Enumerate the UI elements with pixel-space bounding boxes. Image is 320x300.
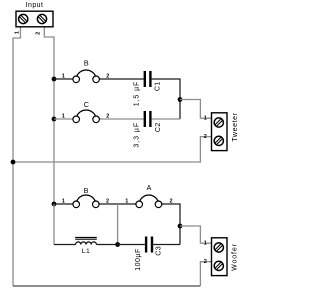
capacitor C3	[145, 237, 153, 253]
wire input pin2 to positive rail	[44, 27, 54, 204]
wire L1 to C3	[96, 244, 144, 246]
wire C1 out down to C2 out	[152, 79, 180, 119]
wire jumper C pin2 to C2	[100, 118, 144, 120]
wire woofer pin2 riser	[200, 262, 211, 286]
svg-text:1: 1	[204, 241, 207, 247]
junction positive rail row C	[52, 117, 57, 122]
svg-text:2: 2	[169, 198, 172, 204]
wire tap to woofer pin1	[180, 226, 212, 243]
junction woofer tap	[178, 224, 183, 229]
svg-text:2: 2	[36, 32, 42, 35]
wire C2 out	[152, 118, 180, 120]
jumper C	[73, 110, 100, 123]
wire C3 to right vertical	[153, 244, 180, 246]
svg-text:1: 1	[204, 116, 207, 122]
connector J2 Tweeter	[212, 113, 228, 151]
svg-text:C: C	[84, 100, 89, 109]
wire jumper B pin2 to C1	[100, 78, 144, 80]
jumper A	[136, 195, 162, 208]
svg-text:1: 1	[125, 198, 128, 204]
junction caps join	[178, 97, 183, 102]
junction positive rail row B	[52, 77, 57, 82]
svg-text:Input: Input	[26, 2, 44, 9]
wire rail to jumper B2 pin1	[54, 203, 73, 205]
svg-text:3,3 µF: 3,3 µF	[133, 122, 140, 148]
jumper B2	[73, 195, 99, 208]
svg-text:B: B	[84, 186, 89, 195]
svg-text:1: 1	[15, 31, 21, 34]
svg-text:2: 2	[106, 73, 109, 79]
svg-text:L1: L1	[82, 248, 91, 255]
wire input pin1 to left rail	[13, 27, 21, 286]
wire caps join to tweeter pin1	[180, 100, 212, 119]
svg-text:2: 2	[106, 113, 109, 119]
junction positive rail bottom row	[52, 202, 57, 207]
wire jumper B2 pin2 to jumper A pin1	[99, 203, 136, 205]
wire to L1 left	[54, 244, 76, 246]
wire bottom rail to woofer pin 2	[13, 285, 200, 287]
svg-text:2: 2	[106, 198, 109, 204]
svg-text:1: 1	[62, 113, 65, 119]
svg-text:1: 1	[62, 198, 65, 204]
svg-text:A: A	[147, 183, 152, 192]
svg-text:2: 2	[204, 259, 207, 265]
junction left rail / tweeter return	[11, 160, 16, 165]
svg-text:1,5 µF: 1,5 µF	[133, 81, 140, 106]
connector J3 Woofer	[212, 238, 228, 276]
svg-text:C2: C2	[155, 122, 162, 132]
wire tweeter pin2 return to left rail	[13, 137, 212, 162]
wire jumper A pin2 down right side	[162, 204, 180, 245]
wire rail to jumper B pin1	[54, 78, 73, 80]
capacitor C2	[144, 111, 152, 127]
svg-text:1: 1	[62, 73, 65, 79]
svg-text:C3: C3	[156, 246, 163, 256]
connector J1 Input	[16, 11, 53, 27]
capacitor C1	[144, 71, 152, 87]
svg-text:B: B	[84, 58, 89, 67]
svg-text:C1: C1	[155, 81, 162, 91]
jumper B	[73, 70, 100, 83]
svg-text:2: 2	[204, 134, 207, 140]
wire rail to jumper C pin1	[54, 118, 73, 120]
svg-text:Tweeter: Tweeter	[232, 112, 239, 141]
wire rail down to L1	[53, 204, 55, 245]
wire mid tee down to L1 row	[117, 204, 119, 245]
svg-text:Woofer: Woofer	[232, 243, 239, 271]
junction L1 / C3 row	[115, 242, 120, 247]
inductor L1	[75, 237, 97, 244]
svg-text:100µF: 100µF	[135, 248, 142, 271]
